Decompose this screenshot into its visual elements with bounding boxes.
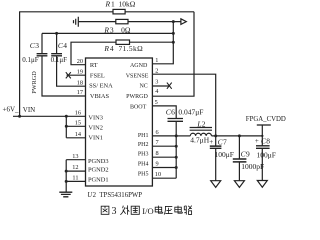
svg-text:3: 3	[112, 206, 117, 217]
resistor R1	[113, 9, 125, 14]
wire vertical down to PWRGD pin 4	[152, 12, 194, 96]
svg-text:FSEL: FSEL	[90, 72, 105, 79]
capacitor C4	[56, 34, 58, 54]
ground triangle under C9	[234, 181, 244, 188]
svg-text:VIN: VIN	[23, 106, 35, 114]
svg-text:R: R	[105, 0, 111, 9]
arrow terminal on R3 net	[181, 19, 186, 25]
svg-text:R: R	[103, 25, 109, 34]
wire VIN1 stub	[66, 137, 85, 139]
svg-text:PH5: PH5	[138, 172, 149, 178]
power rail FPGA_CVDD tee	[257, 124, 271, 126]
wire PH5 pin10 stub	[152, 177, 176, 179]
svg-text:PH2: PH2	[138, 142, 149, 148]
wire R3 to AGND net	[128, 21, 181, 23]
svg-text:+: +	[209, 138, 213, 146]
svg-text:1 10kΩ: 1 10kΩ	[111, 0, 136, 9]
svg-text:9: 9	[246, 149, 250, 158]
wire PH3 pin8 stub	[152, 156, 176, 158]
ground triangle under C8	[257, 181, 267, 188]
svg-text:20: 20	[77, 58, 83, 65]
svg-text:RT: RT	[90, 62, 98, 69]
wire PWRGD pull-up vertical from +6V	[19, 12, 21, 117]
wire PH2 pin7 stub	[152, 145, 176, 147]
inductor L2 winding	[190, 133, 211, 136]
svg-text:1: 1	[155, 57, 158, 64]
wire RT pin20 to R4	[71, 42, 116, 64]
svg-text:SS/ ENA: SS/ ENA	[89, 83, 113, 90]
svg-text:AGND: AGND	[130, 63, 148, 69]
svg-text:4: 4	[63, 41, 67, 50]
node VSENSE/C7 junction	[214, 134, 217, 137]
capacitor C9	[238, 136, 240, 159]
svg-text:PGND3: PGND3	[88, 158, 109, 165]
svg-text:R: R	[103, 44, 109, 53]
wire VIN2 stub	[66, 125, 85, 127]
pin 3 no-connect X	[152, 85, 169, 87]
svg-text:3 0Ω: 3 0Ω	[110, 25, 131, 34]
wire C6 bottom / PH bus vertical	[175, 121, 177, 178]
svg-text:3: 3	[155, 79, 158, 86]
svg-text:VSENSE: VSENSE	[126, 73, 149, 79]
capacitor C6	[168, 119, 184, 122]
caption hanzi DIAN (electric)	[155, 206, 163, 214]
node PH bus junction pin7	[175, 145, 178, 148]
node C9 junction	[238, 134, 241, 137]
wire +6V input rail	[13, 115, 86, 117]
svg-text:PH3: PH3	[138, 152, 149, 158]
svg-text:0.1μF: 0.1μF	[22, 56, 39, 64]
svg-text:L: L	[196, 119, 201, 128]
wire PGND bus	[66, 160, 85, 192]
pin 19 no-connect X	[67, 74, 86, 76]
svg-text:NC: NC	[139, 84, 147, 90]
wire AGND bypass rail (C3/C4 tops)	[42, 32, 173, 34]
wire R4 to AGND vertical	[130, 41, 174, 43]
svg-text:8: 8	[266, 137, 270, 146]
svg-text:VIN1: VIN1	[88, 135, 103, 142]
wire AGND vertical to pin 1	[152, 22, 173, 64]
svg-text:10: 10	[155, 171, 161, 178]
node PGND1 junction	[65, 180, 68, 183]
svg-text:7: 7	[156, 139, 159, 146]
svg-text:4: 4	[155, 88, 159, 95]
node VIN3 junction	[65, 115, 68, 118]
node VIN2 junction	[65, 125, 68, 128]
svg-text:16: 16	[75, 109, 81, 116]
svg-text:6: 6	[156, 129, 159, 136]
svg-text:VIN3: VIN3	[88, 115, 103, 122]
svg-text:FPGA_CVDD: FPGA_CVDD	[246, 116, 286, 123]
wire ground to R3	[78, 21, 116, 23]
node PH bus junction pin6	[175, 134, 178, 137]
node AGND rail junction	[172, 32, 175, 35]
node AGND/R3 junction	[172, 20, 175, 23]
svg-text:3: 3	[35, 41, 39, 50]
svg-text:PWRGD: PWRGD	[31, 71, 38, 94]
svg-text:PGND1: PGND1	[88, 176, 109, 183]
svg-text:BOOT: BOOT	[130, 104, 147, 110]
caption hanzi WEI (enclose)	[131, 206, 139, 214]
wire BOOT pin5 to C6	[152, 106, 176, 119]
svg-text:8: 8	[156, 150, 159, 157]
svg-text:2: 2	[202, 119, 206, 128]
wire VIN bus vertical	[65, 116, 67, 138]
svg-text:18: 18	[77, 79, 83, 86]
svg-text:PH1: PH1	[138, 133, 149, 139]
node +6V junction dot	[18, 115, 21, 118]
wire PH1 pin6 stub	[152, 135, 176, 137]
svg-text:7: 7	[223, 138, 227, 147]
caption hanzi LU (road)	[184, 206, 192, 215]
capacitor C8	[261, 136, 263, 146]
node R4/AGND junction	[172, 41, 175, 44]
inductor L2 core lines	[190, 128, 212, 131]
svg-text:14: 14	[75, 131, 82, 138]
wire top rail right of R1	[125, 11, 194, 13]
svg-text:100μF: 100μF	[215, 150, 234, 159]
svg-text:2 TPS54316PWP: 2 TPS54316PWP	[93, 192, 143, 199]
svg-text:19: 19	[77, 68, 83, 75]
capacitor C3	[41, 33, 43, 53]
svg-text:4.7μH: 4.7μH	[190, 136, 209, 145]
svg-text:17: 17	[77, 89, 83, 96]
ground earth symbol below PGND	[59, 192, 72, 197]
caption figure 3: hanzi TU (figure)	[101, 206, 109, 214]
caption hanzi WAI (outer)	[120, 205, 129, 214]
svg-text:VIN2: VIN2	[88, 125, 103, 132]
svg-text:I/O: I/O	[142, 206, 153, 216]
capacitor C7	[215, 136, 217, 146]
svg-text:6: 6	[171, 108, 175, 117]
svg-text:+6V_: +6V_	[3, 105, 20, 113]
svg-text:9: 9	[156, 161, 159, 168]
wire PH4 pin9 stub	[152, 167, 176, 169]
wire PH bus to L2	[176, 135, 190, 137]
svg-text:4 71.5kΩ: 4 71.5kΩ	[110, 44, 143, 53]
svg-text:2: 2	[155, 67, 158, 74]
svg-text:1000pF: 1000pF	[241, 162, 264, 171]
resistor R3	[116, 19, 128, 23]
ground (sideways earth) at R3	[74, 17, 79, 27]
wire L2 to output node	[212, 135, 263, 137]
svg-text:0.1μF: 0.1μF	[51, 56, 68, 64]
svg-text:PGND2: PGND2	[88, 167, 109, 174]
svg-text:PH4: PH4	[138, 162, 149, 168]
wire top rail left of R1	[19, 11, 113, 13]
node PH bus junction pin8	[175, 156, 178, 159]
node C8 junction	[261, 135, 263, 137]
svg-text:13: 13	[72, 153, 78, 160]
wire VSENSE feedback	[152, 74, 215, 136]
svg-text:0.047μF: 0.047μF	[178, 108, 203, 117]
node PGND2 junction	[65, 170, 68, 173]
node PH bus junction pin9	[175, 166, 178, 169]
svg-text:12: 12	[72, 164, 78, 171]
svg-text:100μF: 100μF	[257, 150, 276, 159]
svg-text:PWRGD: PWRGD	[126, 94, 148, 100]
op chip U2 body	[86, 58, 153, 186]
svg-text:15: 15	[75, 119, 81, 126]
svg-text:5: 5	[155, 99, 158, 106]
node C4 top junction	[55, 32, 58, 35]
svg-text:+: +	[255, 137, 259, 145]
svg-text:11: 11	[72, 175, 78, 182]
caption hanzi DIAN (electric)	[175, 206, 183, 214]
ground triangle under C7	[211, 181, 221, 188]
svg-text:VBIAS: VBIAS	[90, 93, 110, 100]
resistor R4	[116, 40, 130, 44]
caption hanzi YA (pressure)	[164, 206, 172, 214]
